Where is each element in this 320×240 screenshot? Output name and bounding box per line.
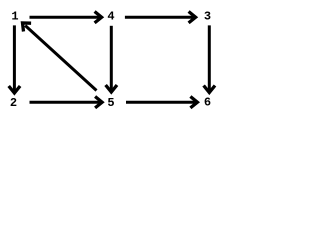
svg-text:6: 6 <box>204 96 211 110</box>
svg-text:5: 5 <box>107 96 114 110</box>
svg-text:4: 4 <box>107 9 114 23</box>
svg-text:1: 1 <box>11 10 18 24</box>
svg-text:2: 2 <box>10 96 17 110</box>
svg-text:3: 3 <box>204 9 211 23</box>
